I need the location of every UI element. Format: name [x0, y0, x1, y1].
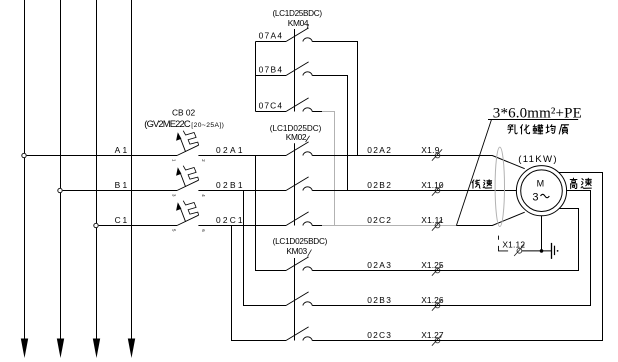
svg-text:3: 3	[532, 191, 538, 203]
contactor KM04 contact 07B4	[286, 62, 312, 76]
svg-text:X1.26: X1.26	[421, 295, 444, 305]
svg-text:07B4: 07B4	[259, 64, 283, 74]
circuit breaker CB02 pole A	[172, 131, 206, 163]
cable ellipse	[495, 147, 504, 226]
terminal X1.27	[432, 334, 442, 345]
svg-text:B1: B1	[115, 180, 128, 190]
svg-text:02C1: 02C1	[216, 215, 243, 225]
wire PE	[522, 250, 552, 252]
label ruhuaguan junzhi (Chinese)	[508, 125, 517, 134]
wire 02C2 (gray net)	[322, 225, 456, 227]
svg-text:[20~25A]): [20~25A])	[191, 122, 224, 129]
circuit breaker CB02 pole C	[172, 201, 206, 233]
terminal X1.11	[432, 219, 442, 230]
svg-text:3*6.0mm²+PE: 3*6.0mm²+PE	[493, 106, 582, 122]
terminal X1.26	[432, 299, 442, 310]
wire 07A4	[256, 41, 287, 43]
svg-text:02C2: 02C2	[367, 215, 391, 225]
wire bus N	[131, 0, 133, 344]
svg-text:02A2: 02A2	[367, 145, 391, 155]
svg-text:(GV2ME22C: (GV2ME22C	[144, 118, 191, 129]
svg-text:X1.9: X1.9	[421, 145, 440, 155]
ground	[552, 243, 559, 259]
bus N arrow	[128, 339, 135, 359]
label KM03 tick	[308, 250, 312, 257]
wire A1	[27, 155, 177, 157]
node B bus tap	[58, 188, 62, 192]
contactor KM03 contact A	[286, 257, 312, 271]
wire 07B4	[256, 75, 287, 77]
svg-text:X1.10: X1.10	[421, 180, 444, 190]
wire 02B2	[312, 190, 516, 192]
circuit breaker CB02 pole B	[172, 166, 206, 198]
svg-text:(LC1D025BDC): (LC1D025BDC)	[273, 237, 328, 246]
wire 02C2 to motor	[456, 212, 524, 225]
wire KM04 C output stub	[312, 111, 322, 113]
wire KM04 A output	[312, 42, 357, 156]
svg-text:07C4: 07C4	[259, 100, 283, 110]
contactor KM04 star bridge	[255, 42, 257, 112]
svg-text:4: 4	[201, 194, 206, 197]
wire 02C1 to KM03	[232, 226, 287, 341]
svg-text:X1.27: X1.27	[421, 330, 444, 340]
svg-text:(11KW): (11KW)	[518, 154, 556, 165]
svg-text:C1: C1	[115, 215, 128, 225]
contactor KM02 contact B	[286, 177, 312, 191]
svg-text:X1.12: X1.12	[502, 240, 525, 250]
contactor KM03 linkage	[294, 258, 296, 341]
svg-text:2: 2	[201, 159, 206, 162]
terminal X1.10	[432, 184, 442, 195]
wire 02B1	[198, 190, 286, 192]
wire KM04 B output	[312, 76, 347, 191]
contactor KM02 contact A	[286, 142, 312, 156]
wire 02A2	[312, 156, 525, 169]
label disu (low speed)	[472, 180, 480, 188]
svg-text:02B3: 02B3	[367, 295, 391, 305]
wire 02A3	[312, 209, 578, 271]
svg-text:3: 3	[172, 194, 177, 197]
svg-text:02B2: 02B2	[367, 180, 391, 190]
label gaosu (high speed)	[570, 178, 577, 189]
wire 02C3	[312, 173, 602, 341]
wire B1	[63, 190, 177, 192]
svg-text:X1.25: X1.25	[421, 260, 444, 270]
svg-text:07A4: 07A4	[259, 30, 283, 40]
contactor KM02 linkage	[294, 143, 296, 225]
leader line 3*6.0mm2+PE	[456, 120, 491, 226]
label 3*6.0mm2+PE underline	[488, 119, 578, 121]
svg-text:CB 02: CB 02	[172, 107, 196, 117]
svg-text:KM04: KM04	[288, 18, 309, 28]
terminal X1.9	[432, 149, 442, 160]
wire C1	[99, 225, 177, 227]
label KM02 tick	[306, 136, 310, 142]
wire bus L2	[60, 0, 62, 344]
wire 02A1 to KM03	[256, 156, 287, 271]
wire 07C4	[256, 111, 287, 113]
svg-text:KM03: KM03	[286, 246, 307, 256]
node A bus tap	[22, 153, 26, 157]
wire 02C1	[198, 225, 286, 227]
svg-text:6: 6	[201, 229, 206, 232]
contactor KM04 contact 07C4	[286, 98, 312, 112]
node C bus tap	[94, 223, 98, 227]
terminal X1.12 bracket	[499, 236, 509, 251]
svg-text:02A1: 02A1	[216, 145, 243, 155]
wire bus L3	[96, 0, 98, 344]
contactor KM04 linkage	[294, 29, 296, 112]
svg-text:5: 5	[172, 229, 177, 232]
wire 02C2 stub	[312, 225, 322, 227]
label KM04 tick	[307, 24, 308, 28]
svg-text:02C3: 02C3	[367, 330, 391, 340]
wire bus L1	[24, 0, 26, 344]
wire 02A1	[198, 155, 286, 157]
svg-text:02B1: 02B1	[216, 180, 243, 190]
motor M 3~	[516, 166, 566, 216]
bus L2 arrow	[57, 339, 64, 359]
contactor KM02 contact C	[286, 212, 312, 226]
svg-text:KM02: KM02	[286, 132, 307, 142]
svg-text:1: 1	[172, 159, 177, 162]
terminal X1.25	[432, 264, 442, 275]
bus L3 arrow	[93, 339, 100, 359]
wire 02B1 to KM03	[244, 191, 287, 306]
contactor KM04 contact 07A4	[286, 28, 312, 42]
contactor KM03 contact B	[286, 292, 312, 306]
wire KM04 C output (gray net)	[322, 112, 335, 226]
wire 02B3	[312, 191, 590, 306]
svg-text:M: M	[537, 178, 545, 188]
bus L1 arrow	[21, 339, 28, 359]
wire motor to ground	[541, 216, 543, 251]
terminal X1.12	[514, 245, 524, 256]
junction dot	[540, 249, 544, 253]
svg-text:A1: A1	[115, 145, 128, 155]
contactor KM03 contact C	[286, 327, 312, 341]
svg-text:02A3: 02A3	[367, 260, 391, 270]
svg-text:X1.11: X1.11	[421, 215, 444, 225]
